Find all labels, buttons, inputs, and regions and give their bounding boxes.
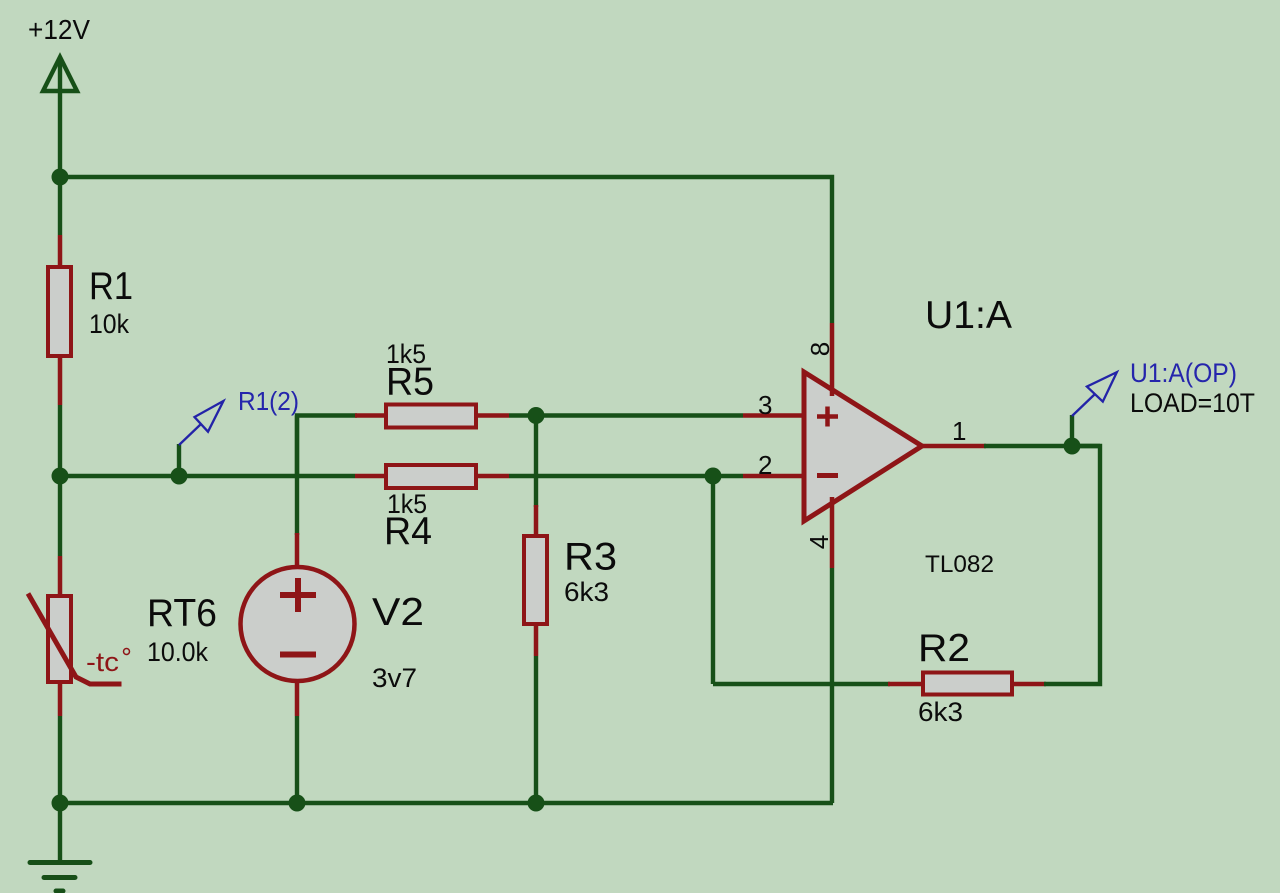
wire pin4 down: [830, 568, 834, 803]
wire ground stem: [58, 803, 62, 862]
svg-text:-tc: -tc: [86, 647, 119, 677]
thermistor RT6 diagonal: [28, 594, 122, 685]
op-amp pin 8 stub: [830, 323, 835, 396]
svg-text:RT6: RT6: [147, 592, 217, 635]
node output junction: [1064, 438, 1081, 455]
svg-text:2: 2: [758, 450, 772, 480]
op-amp U1:A body: [804, 372, 922, 521]
wire V2 top green: [295, 416, 299, 536]
svg-text:8: 8: [805, 342, 835, 356]
svg-text:R2: R2: [918, 627, 970, 670]
svg-text:6k3: 6k3: [564, 577, 609, 607]
resistor R3 pin top: [534, 505, 539, 537]
resistor R2 body: [923, 673, 1012, 695]
svg-text:R3: R3: [564, 536, 617, 579]
op-amp plus sign: [817, 407, 838, 427]
wire R2 right up to output: [1044, 446, 1100, 684]
probe R1(2) stub: [177, 444, 181, 476]
resistor R3 pin bottom: [534, 623, 539, 656]
svg-text:4: 4: [804, 535, 834, 549]
resistor R2 pin right: [1010, 682, 1046, 687]
label -tc degree mark: [124, 649, 130, 655]
resistor R1 pin bottom: [58, 356, 63, 405]
resistor R5 pin left: [355, 413, 388, 418]
wire RT6 bottom green: [58, 716, 62, 803]
svg-text:V2: V2: [372, 591, 424, 634]
node probe R1(2) junction: [171, 468, 188, 485]
thermistor RT6 pin top: [58, 556, 63, 597]
wire R1 top green: [58, 177, 62, 235]
wire output green: [984, 444, 1100, 448]
svg-text:R1(2): R1(2): [238, 386, 299, 416]
thermistor RT6 body: [48, 596, 71, 682]
source V2 plus: [280, 578, 316, 612]
node pin2/feedback junction: [705, 468, 722, 485]
wire feedback horizontal to R2: [713, 682, 890, 686]
wire top rail: [60, 177, 832, 323]
source V2 pin bottom: [295, 680, 300, 716]
power +12V arrow symbol: [43, 57, 77, 177]
source V2 minus: [280, 652, 316, 658]
node V2 bottom junction: [289, 795, 306, 812]
wire R1 bottom green: [58, 405, 62, 476]
wire feedback vertical: [711, 476, 715, 684]
op-amp pin 1 stub: [922, 444, 986, 449]
svg-text:3: 3: [758, 390, 772, 420]
svg-text:TL082: TL082: [925, 551, 994, 578]
resistor R5 body: [386, 405, 476, 428]
svg-text:10k: 10k: [89, 309, 130, 339]
op-amp pin 4 stub: [830, 497, 835, 568]
wire RT6 top green: [58, 476, 62, 556]
wire R5 right to op-amp: [509, 413, 743, 417]
ground: [30, 863, 90, 892]
resistor R4 pin left: [355, 474, 388, 479]
svg-text:U1:A(OP): U1:A(OP): [1130, 358, 1237, 388]
svg-text:10.0k: 10.0k: [147, 637, 209, 667]
probe R1(2) arrow: [179, 401, 223, 445]
thermistor RT6 pin bottom: [58, 681, 63, 716]
node R3 bottom junction: [528, 795, 545, 812]
source V2 pin top: [295, 533, 300, 568]
svg-text:R1: R1: [89, 265, 133, 308]
svg-text:R5: R5: [386, 361, 434, 404]
node top-left junction: [52, 169, 69, 186]
svg-text:LOAD=10T: LOAD=10T: [1130, 388, 1255, 418]
op-amp pin 2 stub: [743, 474, 803, 479]
node B junction (R1/RT6): [52, 468, 69, 485]
resistor R4 pin right: [474, 474, 509, 479]
source V2 body: [241, 567, 355, 681]
probe U1:A(OP) stub: [1070, 415, 1074, 446]
svg-text:6k3: 6k3: [918, 697, 963, 727]
wire R3 top green: [534, 416, 538, 508]
svg-text:U1:A: U1:A: [925, 294, 1012, 337]
wire R3 bottom green: [534, 656, 538, 803]
node bottom-left junction: [52, 795, 69, 812]
op-amp minus sign: [817, 473, 838, 478]
resistor R1 pin top: [58, 235, 63, 267]
wire bottom rail: [60, 801, 833, 805]
svg-text:+12V: +12V: [28, 14, 90, 45]
node R5/R3 junction: [528, 407, 545, 424]
op-amp pin 3 stub: [743, 413, 803, 418]
svg-text:3v7: 3v7: [372, 663, 417, 693]
resistor R1 body: [48, 267, 71, 356]
resistor R3 body: [524, 536, 547, 624]
resistor R5 pin right: [474, 413, 509, 418]
resistor R2 pin left: [888, 682, 925, 687]
svg-text:1: 1: [952, 416, 966, 446]
probe U1:A(OP) arrow: [1072, 372, 1117, 416]
wire V2 bottom green: [295, 716, 299, 803]
svg-text:R4: R4: [384, 510, 432, 553]
wire R5 left: [297, 416, 357, 477]
wire main horizontal y=476: [60, 474, 355, 478]
resistor R4 body: [386, 465, 476, 488]
